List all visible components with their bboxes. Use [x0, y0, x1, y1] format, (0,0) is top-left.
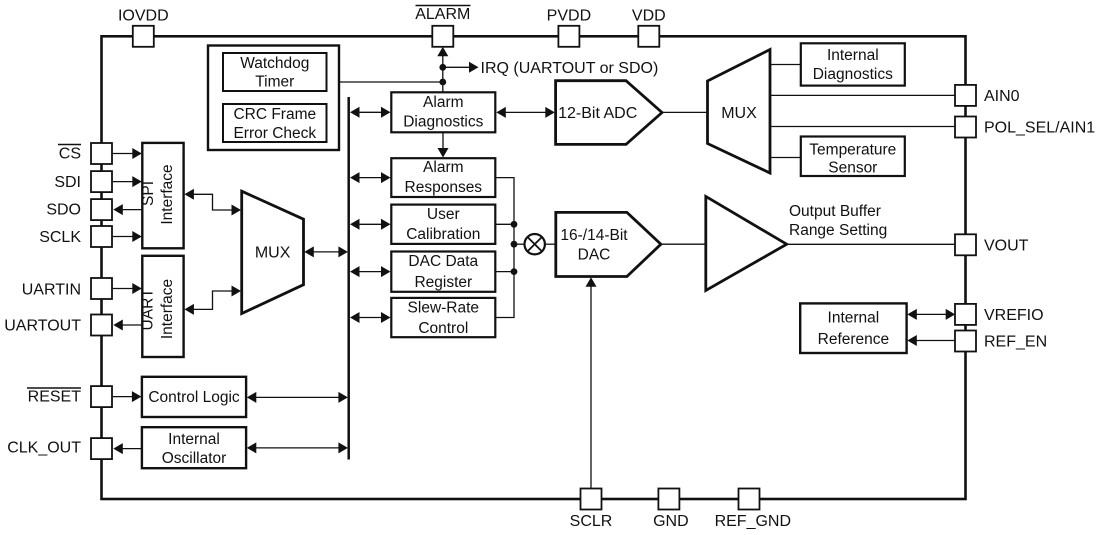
svg-text:12-Bit ADC: 12-Bit ADC — [558, 105, 637, 122]
wire right MUX to POL_SEL/AIN1 pin — [769, 126, 956, 128]
wire SPI Interface to left MUX step — [184, 189, 241, 216]
wire Control Logic to bus double arrow — [247, 392, 348, 403]
svg-text:Error Check: Error Check — [233, 125, 316, 142]
wire bus to User Calibration double arrow — [350, 219, 391, 230]
svg-text:AIN0: AIN0 — [984, 88, 1020, 105]
block SPI Interface — [140, 143, 184, 248]
wire bus to Slew-Rate Control double arrow — [350, 312, 391, 323]
wire UART to UARTOUT pin arrow — [113, 320, 142, 331]
svg-text:RESET: RESET — [28, 389, 82, 406]
wire Internal Reference to VREFIO double arrow — [907, 309, 955, 320]
multiplier circle — [525, 234, 545, 254]
svg-text:Responses: Responses — [405, 179, 483, 196]
block right MUX — [708, 50, 771, 174]
svg-text:Internal: Internal — [827, 47, 879, 64]
svg-text:Alarm: Alarm — [423, 159, 463, 176]
wire Internal Oscillator to CLK_OUT pin arrow — [113, 443, 142, 454]
wire left MUX to bus double arrow — [304, 246, 348, 257]
pin PVDD — [558, 26, 579, 47]
svg-text:Internal: Internal — [828, 310, 880, 327]
wire alarm junction to ALARM pin and alarm diagnostics — [437, 47, 448, 93]
svg-text:UARTIN: UARTIN — [22, 282, 81, 299]
block Slew-Rate Control — [391, 298, 495, 337]
svg-text:User: User — [427, 206, 460, 223]
wire CS pin to SPI arrow — [113, 148, 142, 159]
svg-text:CLK_OUT: CLK_OUT — [7, 440, 81, 457]
svg-text:Diagnostics: Diagnostics — [403, 114, 483, 131]
block output buffer triangle — [706, 196, 787, 290]
block 12-Bit ADC pentagon — [556, 81, 662, 145]
block DAC Data Register — [391, 252, 495, 292]
pin IOVDD — [133, 26, 154, 47]
chip outer border — [102, 36, 966, 499]
block UART Interface — [140, 256, 184, 357]
wire SCLK pin to SPI arrow — [113, 231, 142, 242]
svg-text:SCLK: SCLK — [39, 229, 81, 246]
pin SDI — [91, 171, 112, 192]
wire output buffer to VOUT pin — [786, 243, 956, 245]
block User Calibration — [391, 205, 495, 244]
svg-text:PVDD: PVDD — [547, 8, 591, 25]
svg-text:Oscillator: Oscillator — [162, 450, 227, 467]
pin CS — [91, 143, 112, 164]
block Watchdog Timer — [223, 53, 327, 91]
block Internal Oscillator — [142, 427, 246, 468]
junction dot DAC data register — [511, 268, 518, 275]
junction dot IRQ branch — [439, 64, 446, 71]
block Alarm Responses — [391, 158, 495, 197]
block Internal Diagnostics — [801, 43, 905, 85]
svg-text:Register: Register — [414, 274, 472, 291]
svg-text:Control Logic: Control Logic — [148, 389, 240, 406]
pin SCLK — [91, 226, 112, 247]
svg-text:SPI: SPI — [140, 181, 157, 206]
svg-text:DAC Data: DAC Data — [408, 253, 478, 270]
wire bus to DAC Data Register double arrow — [350, 266, 391, 277]
svg-text:16-/14-Bit: 16-/14-Bit — [560, 227, 628, 244]
svg-text:Calibration: Calibration — [406, 226, 480, 243]
pin UARTIN — [91, 278, 112, 299]
svg-text:ALARM: ALARM — [415, 6, 470, 23]
svg-text:UARTOUT: UARTOUT — [4, 318, 81, 335]
svg-text:POL_SEL/AIN1: POL_SEL/AIN1 — [984, 120, 1095, 137]
svg-text:Interface: Interface — [159, 279, 176, 339]
wire ADC to right MUX — [661, 111, 708, 113]
svg-text:Reference: Reference — [818, 331, 890, 348]
wire bus to Alarm Diagnostics double arrow — [350, 107, 391, 118]
pin CLK_OUT — [91, 438, 112, 459]
svg-text:IOVDD: IOVDD — [118, 8, 169, 25]
svg-text:CRC Frame: CRC Frame — [233, 106, 316, 123]
block 16-/14-Bit DAC pentagon — [556, 212, 661, 276]
junction dot watchdog line — [439, 79, 446, 86]
label ALARM with overline — [415, 6, 470, 24]
wire right MUX to Internal Diagnostics — [769, 64, 801, 66]
block left MUX — [242, 191, 304, 313]
svg-text:MUX: MUX — [255, 244, 291, 261]
pin REF_GND — [739, 489, 760, 510]
pin SCLR — [581, 489, 602, 510]
svg-text:MUX: MUX — [721, 105, 757, 122]
wire SCLR pin to DAC arrow — [586, 277, 597, 489]
pin SDO — [91, 199, 112, 220]
wire Internal Oscillator to bus double arrow — [247, 442, 348, 453]
svg-text:Temperature: Temperature — [809, 141, 896, 158]
pin VOUT — [955, 234, 976, 255]
pin REF_EN — [955, 331, 976, 352]
svg-text:DAC: DAC — [578, 247, 611, 264]
svg-text:Diagnostics: Diagnostics — [813, 66, 893, 83]
label RESET with overline — [27, 388, 81, 406]
svg-text:Slew-Rate: Slew-Rate — [408, 299, 480, 316]
svg-text:VOUT: VOUT — [984, 237, 1029, 254]
wire multiplier to DAC — [545, 243, 556, 245]
label CS with overline — [58, 145, 81, 163]
junction dot multiplier branch — [511, 241, 518, 248]
svg-text:Range Setting: Range Setting — [789, 222, 887, 239]
pin VDD — [638, 26, 659, 47]
block Temperature Sensor — [801, 137, 905, 177]
pin VREFIO — [955, 304, 976, 325]
svg-text:Control: Control — [418, 320, 468, 337]
wire bus to Alarm Responses double arrow — [350, 172, 391, 183]
svg-text:UART: UART — [140, 288, 157, 330]
svg-text:Timer: Timer — [255, 73, 294, 90]
svg-text:SDO: SDO — [46, 201, 81, 218]
wire SDI pin to SPI arrow — [113, 176, 142, 187]
wire right MUX to AIN0 pin — [769, 94, 956, 96]
wire Alarm Diagnostics to ADC double arrow — [496, 107, 555, 118]
wire UARTIN pin to UART arrow — [113, 283, 142, 294]
svg-text:GND: GND — [653, 513, 689, 530]
pin ALARM — [432, 26, 453, 47]
pin GND — [658, 489, 679, 510]
block watchdog outer box — [208, 46, 339, 151]
pin AIN0 — [955, 85, 976, 106]
svg-text:SDI: SDI — [54, 174, 81, 191]
svg-text:VREFIO: VREFIO — [984, 307, 1044, 324]
wire RESET pin to Control Logic arrow — [113, 391, 142, 402]
svg-text:Internal: Internal — [168, 431, 220, 448]
block Alarm Diagnostics — [391, 92, 495, 132]
svg-text:Output Buffer: Output Buffer — [789, 203, 881, 220]
wire DAC to output buffer — [660, 243, 706, 245]
svg-text:VDD: VDD — [632, 8, 666, 25]
svg-text:SCLR: SCLR — [570, 513, 613, 530]
svg-text:REF_EN: REF_EN — [984, 334, 1047, 351]
wire right MUX to Temperature Sensor — [769, 157, 801, 159]
block CRC Frame Error Check — [223, 104, 327, 142]
wire REF_EN pin to Internal Reference arrow — [907, 335, 955, 346]
wire watchdog timer to alarm junction — [339, 81, 443, 83]
wire UART Interface to left MUX step — [184, 286, 241, 315]
svg-text:CS: CS — [59, 146, 81, 163]
block Internal Reference — [800, 303, 906, 353]
label Output Buffer Range Setting — [789, 203, 887, 239]
wire Alarm Diagnostics to Alarm Responses arrow — [438, 133, 449, 158]
block Control Logic — [142, 377, 246, 417]
svg-text:Interface: Interface — [159, 164, 176, 224]
junction dot user calibration — [511, 221, 518, 228]
svg-text:Watchdog: Watchdog — [240, 55, 309, 72]
pin RESET — [91, 386, 112, 407]
svg-text:Alarm: Alarm — [423, 94, 463, 111]
wire IRQ arrow — [443, 62, 479, 73]
svg-text:Sensor: Sensor — [828, 160, 877, 177]
pin UARTOUT — [91, 315, 112, 336]
wire register column connector — [495, 178, 524, 318]
svg-text:REF_GND: REF_GND — [715, 513, 791, 530]
svg-text:IRQ (UARTOUT or SDO): IRQ (UARTOUT or SDO) — [481, 60, 659, 77]
bus vertical line — [347, 97, 350, 460]
pin POL_SEL/AIN1 — [955, 117, 976, 138]
wire SPI to SDO pin arrow — [113, 204, 142, 215]
